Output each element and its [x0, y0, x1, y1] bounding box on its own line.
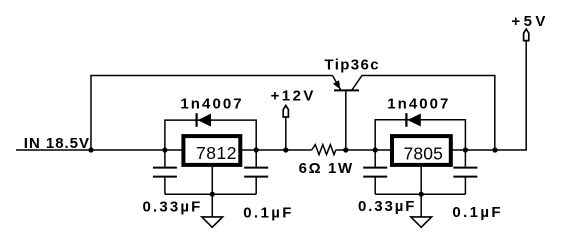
svg-text:0.33µF: 0.33µF [358, 198, 414, 215]
svg-text:6Ω 1W: 6Ω 1W [299, 160, 353, 177]
svg-text:IN 18.5V: IN 18.5V [24, 135, 89, 152]
svg-text:+12V: +12V [271, 87, 314, 104]
svg-text:7805: 7805 [404, 143, 443, 163]
svg-text:0.1µF: 0.1µF [243, 204, 291, 221]
svg-text:Tip36c: Tip36c [324, 57, 378, 74]
svg-text:1n4007: 1n4007 [387, 96, 448, 113]
svg-text:0.1µF: 0.1µF [452, 204, 500, 221]
svg-text:1n4007: 1n4007 [180, 96, 241, 113]
svg-text:0.33µF: 0.33µF [143, 198, 201, 215]
svg-text:7812: 7812 [196, 143, 237, 163]
svg-text:+5V: +5V [511, 13, 545, 30]
